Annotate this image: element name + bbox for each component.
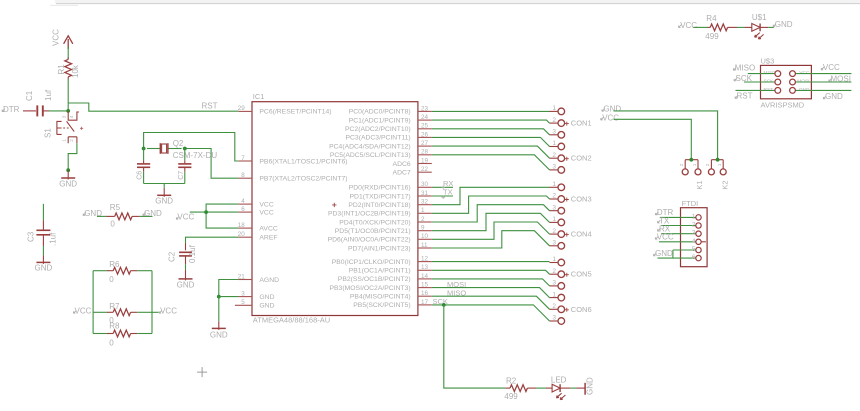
svg-text:29: 29: [238, 105, 246, 112]
svg-text:PC2(ADC2/PCINT10): PC2(ADC2/PCINT10): [345, 126, 411, 133]
svg-text:2: 2: [552, 303, 556, 310]
svg-text:K1: K1: [695, 180, 704, 189]
svg-text:Q2: Q2: [173, 139, 184, 148]
wire RX stub on PD0: [432, 186, 453, 188]
wire VCC to R1: [67, 47, 69, 60]
svg-text:DTR: DTR: [3, 105, 20, 114]
IC1 pin 32 PD2(INT0/PCINT18): [418, 204, 432, 206]
svg-text:PB3(MOSI/OC2A/PCINT3): PB3(MOSI/OC2A/PCINT3): [329, 285, 410, 292]
svg-text:RST: RST: [764, 87, 774, 93]
svg-text:1: 1: [552, 181, 556, 188]
svg-text:PC1(ADC1/PCINT9): PC1(ADC1/PCINT9): [349, 117, 411, 124]
svg-text:AREF: AREF: [259, 235, 277, 242]
svg-text:SCK: SCK: [736, 74, 753, 83]
op-amp IC1 ATMEGA48/88/168-AU body: [252, 102, 418, 316]
svg-text:PD5(T1/OC0B/PCINT21): PD5(T1/OC0B/PCINT21): [335, 228, 411, 235]
svg-text:10: 10: [421, 233, 429, 240]
svg-text:5: 5: [241, 299, 245, 306]
svg-text:PC0(ADC0/PCINT8): PC0(ADC0/PCINT8): [349, 109, 411, 116]
svg-text:32: 32: [421, 199, 429, 206]
wire SCK to U$3: [744, 81, 775, 83]
svg-text:26: 26: [421, 131, 429, 138]
svg-text:16: 16: [421, 290, 429, 297]
svg-text:15: 15: [421, 282, 429, 289]
resistor R5 0: [97, 215, 106, 217]
wire PD2 to CON3 pin1: [432, 187, 550, 204]
svg-text:3: 3: [552, 280, 556, 287]
svg-text:PC4(ADC4/SDA/PCINT12): PC4(ADC4/SDA/PCINT12): [329, 143, 411, 150]
svg-text:1: 1: [552, 291, 556, 298]
wire crystal top to IC pin 7: [144, 133, 239, 162]
resistor R4 499: [708, 26, 711, 28]
svg-text:20: 20: [238, 231, 246, 238]
svg-text:U$3: U$3: [761, 56, 775, 65]
wire PD7 to CON4 pin3: [432, 231, 550, 248]
jumper K1: [685, 160, 698, 169]
svg-text:GND: GND: [144, 209, 162, 218]
svg-text:2: 2: [552, 268, 556, 275]
svg-text:PB0(ICP1/CLKO/PCINT0): PB0(ICP1/CLKO/PCINT0): [332, 259, 411, 266]
wire PC4 to CON2 pin2: [432, 146, 550, 158]
svg-text:PD7(AIN1/PCINT23): PD7(AIN1/PCINT23): [348, 245, 411, 252]
svg-text:GND: GND: [799, 87, 810, 93]
IC1 pin 7 PB6(XTAL1/TOSC1/PCINT6): [239, 160, 252, 162]
node GND branch at pin 3: [217, 295, 221, 299]
wire S1 to ground: [68, 143, 77, 170]
svg-text:7: 7: [241, 155, 245, 162]
svg-text:11: 11: [421, 242, 428, 249]
IC1 pin 31 PD1(TXD/PCINT17): [418, 195, 432, 197]
IC1 pin 5 GND: [235, 304, 252, 306]
wire SCK to R2: [444, 305, 506, 388]
wire PC1 to CON1 pin2: [432, 120, 550, 123]
svg-text:8: 8: [241, 172, 245, 179]
IC1 pin 15 PB3(MOSI/OC2A/PCINT3): [418, 287, 432, 289]
IC1 pin 26 PC3(ADC3/PCINT11): [418, 136, 432, 138]
svg-text:9: 9: [421, 225, 425, 232]
svg-text:GND: GND: [775, 20, 793, 29]
svg-text:18: 18: [238, 222, 246, 229]
svg-text:GND: GND: [59, 180, 77, 189]
svg-text:MOSI: MOSI: [797, 78, 809, 84]
wire R6-R8 left rail: [92, 271, 94, 334]
svg-text:PB6(XTAL1/TOSC1/PCINT6): PB6(XTAL1/TOSC1/PCINT6): [259, 158, 347, 165]
svg-text:3: 3: [552, 164, 556, 171]
wire PC0 to CON1 pin1: [432, 110, 550, 112]
wire PB5 to CON6 pin3: [432, 305, 550, 321]
wire IC pin 20 to C2: [186, 237, 239, 243]
svg-text:ADC7: ADC7: [393, 170, 411, 177]
svg-text:GND: GND: [603, 105, 621, 114]
wire PC3 to CON2 pin1: [432, 137, 550, 146]
IC1 pin 11 PD7(AIN1/PCINT23): [418, 247, 432, 249]
wire PD3 to CON3 pin2: [432, 196, 550, 213]
connector CON4: [550, 221, 559, 223]
svg-text:3: 3: [61, 115, 66, 118]
wire RX to FTDI pin3: [661, 233, 696, 235]
wire RST to U$3: [736, 89, 776, 91]
capacitor C1 1uf: [23, 110, 36, 112]
svg-text:CSM-7X-DU: CSM-7X-DU: [173, 151, 218, 160]
svg-text:GND: GND: [177, 281, 195, 290]
wire down to ground: [218, 297, 220, 322]
wire VCC to FTDI pin4: [659, 241, 696, 243]
svg-text:10k: 10k: [71, 64, 80, 78]
wire crystal right to IC pin 8: [185, 149, 239, 179]
svg-text:1: 1: [692, 163, 698, 166]
svg-text:CON2: CON2: [571, 154, 592, 163]
IC1 pin 14 PB2(SS/OC1B/PCINT2): [418, 278, 432, 280]
svg-text:0: 0: [109, 275, 114, 284]
capacitor C6: [143, 149, 145, 161]
svg-text:1: 1: [61, 139, 66, 142]
connector U$3 AVRISPSMD body: [761, 65, 812, 98]
wire VCC to IC pins 4 6 18: [190, 204, 239, 228]
IC1 pin 12 PB0(ICP1/CLKO/PCINT0): [418, 261, 432, 263]
wire DTR to FTDI pin1: [660, 216, 696, 218]
svg-text:PB2(SS/OC1B/PCINT2): PB2(SS/OC1B/PCINT2): [338, 276, 411, 283]
wire RST net to IC pin 29: [68, 103, 238, 111]
supply VCC top-left: [64, 36, 73, 49]
svg-text:.1uf: .1uf: [49, 232, 58, 246]
svg-text:1uf: 1uf: [44, 89, 53, 101]
svg-text:21: 21: [238, 273, 246, 280]
svg-text:RST: RST: [737, 92, 753, 101]
wire MISO to U$3: [748, 73, 775, 75]
connector CON1: [550, 110, 559, 112]
svg-text:12: 12: [421, 256, 429, 263]
svg-text:CON1: CON1: [571, 119, 592, 128]
connector CON2: [550, 146, 559, 148]
wire PB0 to CON5 pin1: [432, 261, 550, 263]
svg-text:28: 28: [421, 149, 429, 156]
svg-text:GND: GND: [35, 264, 53, 273]
FTDI pin4 stub: [701, 241, 706, 243]
node RST junction: [66, 109, 70, 113]
connector CON5: [550, 262, 559, 264]
IC1 pin 20 AREF: [239, 236, 252, 238]
wire IC pin 21 to ground rail: [219, 280, 239, 297]
svg-text:FTDI: FTDI: [682, 199, 699, 208]
IC1 pin 9 PD5(T1/OC0B/PCINT21): [418, 230, 432, 232]
svg-text:AVRISPSMD: AVRISPSMD: [761, 101, 805, 110]
wire GND to FTDI pins 5 and 6: [658, 250, 697, 258]
svg-text:GND: GND: [825, 92, 843, 101]
resistor R6 0: [93, 270, 107, 272]
ground GND below S1: [67, 170, 69, 179]
IC1 pin 16 PB4(MISO/PCINT4): [418, 295, 432, 297]
svg-text:RST: RST: [202, 102, 218, 111]
svg-text:IC1: IC1: [253, 92, 265, 101]
node VCC branch: [204, 210, 208, 214]
svg-text:C2: C2: [168, 251, 177, 262]
svg-text:CON4: CON4: [571, 230, 592, 239]
ground GND below C3: [36, 261, 50, 263]
svg-text:1: 1: [552, 140, 556, 147]
IC1 pin 24 PC1(ADC1/PCINT9): [418, 119, 432, 121]
svg-text:3: 3: [552, 240, 556, 247]
wire VCC to K1: [614, 119, 692, 159]
wire PB2 to CON5 pin3: [432, 279, 550, 286]
IC1 pin 8 PB7(XTAL2/TOSC2/PCINT7): [239, 177, 252, 179]
svg-text:27: 27: [421, 140, 429, 147]
svg-text:MISO: MISO: [764, 70, 777, 76]
IC1 pin 25 PC2(ADC2/PCINT10): [418, 128, 432, 130]
resistor R1 10k: [67, 57, 69, 59]
svg-text:24: 24: [421, 114, 429, 121]
svg-text:499: 499: [705, 32, 719, 41]
svg-text:R2: R2: [506, 376, 517, 385]
svg-text:C1: C1: [25, 90, 34, 101]
svg-text:PC5(ADC5/SCL/PCINT13): PC5(ADC5/SCL/PCINT13): [330, 152, 411, 159]
wire PD5 to CON4 pin1: [432, 213, 550, 230]
wire R4 to LED U$1: [737, 26, 744, 28]
svg-text:CON6: CON6: [571, 305, 592, 314]
svg-text:SCK: SCK: [764, 78, 775, 84]
svg-text:RX: RX: [443, 179, 453, 188]
wire PB3 to CON6 pin1: [432, 288, 550, 298]
svg-text:23: 23: [421, 105, 429, 112]
svg-text:VCC: VCC: [259, 201, 273, 208]
svg-text:0: 0: [109, 339, 114, 348]
resistor R7 0: [93, 311, 107, 313]
svg-text:2: 2: [552, 193, 556, 200]
svg-text:PC3(ADC3/PCINT11): PC3(ADC3/PCINT11): [345, 135, 410, 142]
svg-text:1: 1: [552, 105, 556, 112]
svg-text:1: 1: [421, 207, 425, 214]
svg-text:C6: C6: [137, 171, 144, 180]
svg-text:ATMEGA48/88/168-AU: ATMEGA48/88/168-AU: [253, 316, 330, 325]
svg-text:4: 4: [69, 115, 74, 118]
svg-text:R1: R1: [57, 64, 66, 75]
wire crystal caps bottom: [144, 184, 185, 188]
svg-text:1: 1: [552, 216, 556, 223]
svg-text:GND: GND: [210, 330, 228, 339]
wire PC2 to CON1 pin3: [432, 129, 550, 135]
IC1 pin 22 ADC7: [418, 171, 432, 173]
wire PB1 to CON5 pin2: [432, 270, 550, 274]
LED bottom indicator: [546, 387, 552, 389]
svg-text:3: 3: [552, 204, 556, 211]
node K1 feed: [689, 158, 693, 162]
svg-text:PB4(MISO/PCINT4): PB4(MISO/PCINT4): [350, 294, 411, 301]
IC1 pin 21 AGND: [239, 279, 252, 281]
node K2 feed: [716, 158, 720, 162]
net label VCC right of R7: [152, 311, 159, 313]
IC1 pin 23 PC0(ADC0/PCINT8): [418, 110, 432, 112]
crystal Q2 CSM-7X-DU: [147, 148, 160, 150]
svg-text:2: 2: [552, 152, 556, 159]
wire TX stub on PD1: [432, 195, 453, 197]
svg-text:U$1: U$1: [752, 13, 767, 22]
svg-text:MISO: MISO: [447, 289, 466, 298]
svg-text:3: 3: [241, 290, 245, 297]
wire U$3 to GND: [795, 89, 851, 91]
svg-text:PD6(AIN0/OC0A/PCINT22): PD6(AIN0/OC0A/PCINT22): [328, 237, 411, 244]
svg-text:GND: GND: [259, 303, 274, 310]
svg-text:PC6(/RESET/PCINT14): PC6(/RESET/PCINT14): [259, 109, 331, 116]
svg-text:AVCC: AVCC: [259, 225, 277, 232]
jumper K2: [711, 160, 723, 169]
svg-text:3: 3: [552, 129, 556, 136]
svg-text:PD1(TXD/PCINT17): PD1(TXD/PCINT17): [350, 193, 411, 200]
svg-text:1: 1: [717, 163, 723, 166]
IC1 pin 30 PD0(RXD/PCINT16): [418, 186, 432, 188]
svg-text:C7: C7: [178, 171, 185, 180]
svg-text:2: 2: [69, 139, 74, 142]
svg-text:VCC: VCC: [177, 213, 194, 222]
wire TX to FTDI pin2: [661, 225, 696, 227]
capacitor C2 0.1uf: [185, 243, 187, 250]
ground GND below IC: [218, 321, 220, 330]
LED U$1: [744, 26, 751, 28]
svg-text:K2: K2: [720, 180, 729, 189]
node crystal right: [183, 147, 187, 151]
wire PD6 to CON4 pin2: [432, 222, 550, 239]
svg-text:C3: C3: [27, 231, 36, 242]
svg-text:0.1uf: 0.1uf: [188, 244, 197, 263]
IC1 pin 13 PB1(OC1A/PCINT1): [418, 269, 432, 271]
svg-text:2: 2: [705, 163, 711, 166]
svg-text:VCC: VCC: [259, 209, 273, 216]
svg-text:S1: S1: [43, 128, 52, 138]
wire C1 to node: [49, 110, 68, 112]
svg-text:PB7(XTAL2/TOSC2/PCINT7): PB7(XTAL2/TOSC2/PCINT7): [259, 176, 347, 183]
IC1 pin 17 PB5(SCK/PCINT5): [418, 304, 432, 306]
IC1 pin 3 GND: [239, 296, 252, 298]
svg-text:PD2(INT0/PCINT18): PD2(INT0/PCINT18): [348, 202, 410, 209]
svg-text:PB5(SCK/PCINT5): PB5(SCK/PCINT5): [353, 302, 410, 309]
svg-text:AGND: AGND: [259, 277, 279, 284]
IC1 pin 27 PC4(ADC4/SDA/PCINT12): [418, 145, 432, 147]
svg-text:25: 25: [421, 123, 429, 130]
svg-text:R8: R8: [109, 322, 120, 331]
wire to IC pin 3: [219, 296, 239, 298]
svg-text:TX: TX: [443, 188, 453, 197]
svg-text:31: 31: [421, 190, 429, 197]
svg-text:3: 3: [552, 315, 556, 322]
svg-text:R5: R5: [110, 203, 121, 212]
svg-text:MISO: MISO: [735, 64, 755, 73]
IC1 pin 18 AVCC: [239, 227, 252, 229]
capacitor C3 .1uf: [42, 204, 44, 220]
wire R6-R8 right rail: [151, 271, 153, 334]
IC1 pin 28 PC5(ADC5/SCL/PCINT13): [418, 154, 432, 156]
connector CON3: [550, 186, 559, 188]
wire U$3 to MOSI: [795, 81, 851, 83]
svg-text:VCC: VCC: [823, 63, 840, 72]
svg-text:VCC: VCC: [75, 307, 92, 316]
ground GND right of LED: [576, 387, 584, 389]
ground GND below C2: [179, 278, 193, 280]
IC1 pin 4 VCC: [239, 203, 252, 205]
svg-text:2: 2: [679, 163, 685, 166]
svg-text:VCC: VCC: [160, 307, 177, 316]
svg-text:PB1(OC1A/PCINT1): PB1(OC1A/PCINT1): [349, 268, 411, 275]
svg-text:PD3(INT1/OC2B/PCINT19): PD3(INT1/OC2B/PCINT19): [328, 211, 411, 218]
svg-text:14: 14: [421, 273, 429, 280]
wire R1 to node: [67, 79, 69, 111]
IC1 pin 2 PD4(T0/XCK/PCINT20): [418, 221, 432, 223]
resistor R8 0: [93, 333, 107, 335]
svg-text:17: 17: [421, 299, 429, 306]
node SCK junction: [442, 303, 446, 307]
svg-text:ADC6: ADC6: [393, 161, 411, 168]
svg-text:2: 2: [421, 216, 425, 223]
svg-text:GND: GND: [585, 377, 594, 395]
IC1 origin cross: [332, 203, 336, 207]
svg-text:2: 2: [552, 228, 556, 235]
wire LED U$1 to GND: [760, 26, 768, 28]
connector CON6: [550, 297, 559, 299]
svg-text:LED: LED: [551, 375, 567, 384]
IC1 pin 29 PC6(/RESET/PCINT14): [239, 110, 252, 112]
svg-text:VCC: VCC: [680, 21, 697, 30]
svg-text:CON3: CON3: [571, 195, 592, 204]
svg-text:VCC: VCC: [52, 29, 61, 46]
wire VCC to R4: [693, 26, 707, 28]
svg-text:30: 30: [421, 181, 429, 188]
svg-text:VCC: VCC: [799, 70, 810, 76]
resistor R2 499: [505, 387, 510, 389]
svg-text:R4: R4: [706, 14, 717, 23]
wire U$3 to VCC: [795, 73, 851, 75]
U$3 pads: [775, 71, 781, 77]
wire PC5 to CON2 pin3: [432, 155, 550, 170]
svg-text:PD0(RXD/PCINT16): PD0(RXD/PCINT16): [349, 185, 411, 192]
node S1 ground junction: [66, 168, 70, 172]
ground GND below crystal caps: [163, 188, 165, 197]
wire LED to ground: [560, 387, 570, 389]
svg-text:GND: GND: [655, 249, 673, 258]
IC1 pin 6 VCC: [239, 211, 252, 213]
svg-text:MOSI: MOSI: [831, 75, 851, 84]
svg-text:6: 6: [241, 206, 245, 213]
svg-text:GND: GND: [155, 196, 173, 205]
svg-text:2: 2: [552, 117, 556, 124]
IC1 pin 1 PD3(INT1/OC2B/PCINT19): [418, 212, 432, 214]
connector FTDI body: [681, 208, 708, 267]
svg-text:4: 4: [241, 198, 245, 205]
svg-text:R6: R6: [109, 260, 120, 269]
node crystal left: [142, 147, 146, 151]
svg-text:19: 19: [421, 157, 429, 164]
svg-text:499: 499: [504, 392, 518, 401]
svg-text:0: 0: [110, 219, 115, 228]
svg-text:VCC: VCC: [602, 113, 619, 122]
wire PD4 to CON3 pin3: [432, 205, 550, 222]
IC1 pin 19 ADC6: [418, 163, 432, 165]
wire GND to K2: [614, 111, 718, 160]
svg-text:R7: R7: [109, 302, 120, 311]
svg-text:GND: GND: [259, 294, 274, 301]
IC1 pin 10 PD6(AIN0/OC0A/PCINT22): [418, 238, 432, 240]
switch S1: [68, 111, 79, 120]
svg-text:CON5: CON5: [571, 270, 592, 279]
svg-text:22: 22: [421, 166, 429, 173]
wire PB4 to CON6 pin2: [432, 296, 550, 309]
svg-text:VCC: VCC: [657, 233, 674, 242]
svg-text:1: 1: [552, 256, 556, 263]
capacitor C7: [184, 149, 186, 161]
svg-text:13: 13: [421, 264, 429, 271]
svg-text:PD4(T0/XCK/PCINT20): PD4(T0/XCK/PCINT20): [339, 219, 410, 226]
